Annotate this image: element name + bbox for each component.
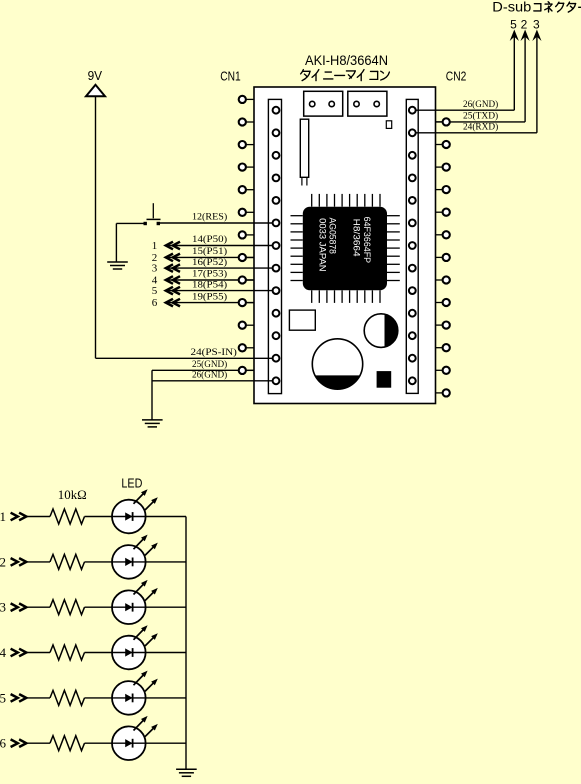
svg-text:12(RES): 12(RES) bbox=[192, 212, 227, 223]
svg-text:24(PS-IN): 24(PS-IN) bbox=[191, 347, 237, 358]
svg-text:10kΩ: 10kΩ bbox=[58, 488, 87, 502]
svg-text:1: 1 bbox=[0, 509, 6, 524]
svg-text:15(P51): 15(P51) bbox=[192, 246, 227, 257]
svg-text:5: 5 bbox=[152, 285, 158, 297]
svg-text:14(P50): 14(P50) bbox=[192, 234, 227, 245]
svg-text:0033 JAPAN: 0033 JAPAN bbox=[317, 218, 328, 272]
svg-text:AKI-H8/3664N: AKI-H8/3664N bbox=[305, 52, 388, 68]
svg-text:5: 5 bbox=[510, 18, 517, 32]
svg-text:19(P55): 19(P55) bbox=[192, 291, 227, 302]
svg-text:LED: LED bbox=[121, 476, 142, 491]
svg-text:9V: 9V bbox=[88, 68, 103, 83]
svg-text:CN1: CN1 bbox=[220, 68, 241, 83]
svg-text:CN2: CN2 bbox=[446, 68, 467, 83]
svg-text:D-sub: D-sub bbox=[492, 0, 531, 14]
svg-text:18(P54): 18(P54) bbox=[192, 279, 227, 290]
svg-text:2: 2 bbox=[521, 18, 528, 32]
svg-text:1: 1 bbox=[152, 240, 158, 252]
svg-text:26(GND): 26(GND) bbox=[192, 370, 227, 381]
svg-text:2: 2 bbox=[0, 554, 6, 569]
svg-text:26(GND): 26(GND) bbox=[463, 99, 498, 110]
svg-text:17(P53): 17(P53) bbox=[192, 269, 227, 280]
svg-text:25(TXD): 25(TXD) bbox=[463, 111, 498, 122]
svg-text:3: 3 bbox=[533, 18, 540, 32]
svg-text:25(GND): 25(GND) bbox=[192, 359, 227, 370]
svg-text:3: 3 bbox=[0, 600, 6, 615]
svg-text:5: 5 bbox=[0, 690, 6, 705]
svg-text:16(P52): 16(P52) bbox=[192, 257, 227, 268]
svg-text:6: 6 bbox=[0, 736, 7, 751]
svg-text:3: 3 bbox=[152, 263, 158, 275]
svg-text:4: 4 bbox=[0, 645, 7, 660]
svg-text:6: 6 bbox=[152, 297, 158, 309]
svg-text:24(RXD): 24(RXD) bbox=[463, 122, 498, 133]
svg-text:H8/3664: H8/3664 bbox=[350, 219, 361, 257]
svg-text:64F3664FP: 64F3664FP bbox=[361, 217, 372, 264]
